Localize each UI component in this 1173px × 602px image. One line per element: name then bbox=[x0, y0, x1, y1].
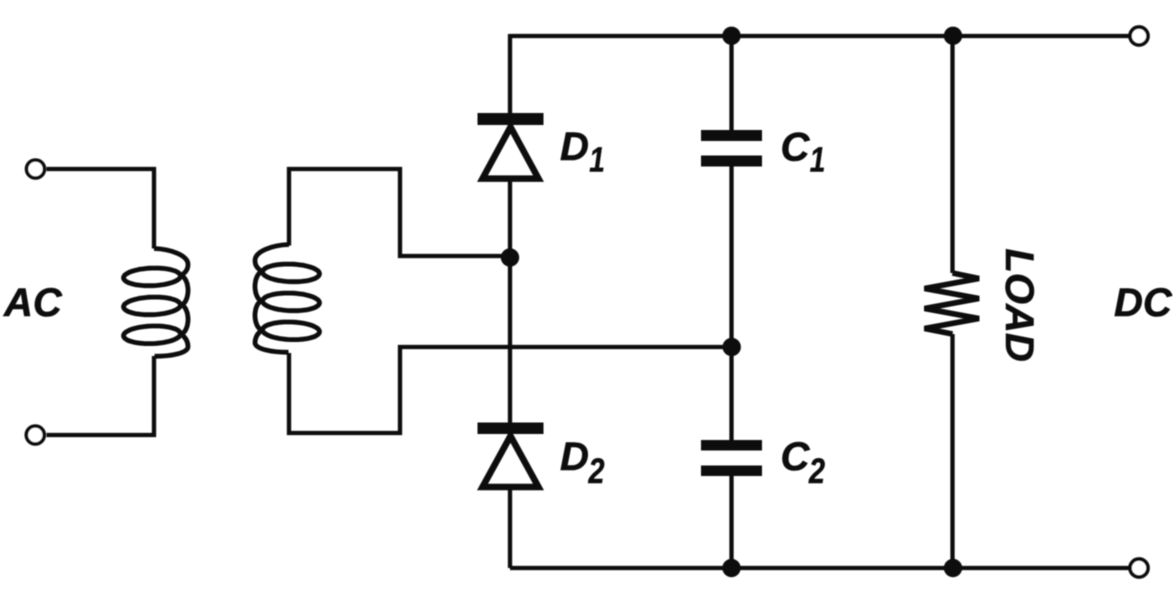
capacitor C2 top plate bbox=[701, 440, 762, 451]
transformer primary winding L1 bbox=[124, 249, 189, 357]
junction top rail / C1 bbox=[722, 27, 740, 45]
svg-text:C: C bbox=[781, 435, 811, 479]
wire node A to D2 cathode (crosses mid rail) bbox=[508, 257, 512, 424]
transformer secondary winding L2 bbox=[255, 245, 320, 353]
svg-text:1: 1 bbox=[587, 140, 608, 180]
svg-text:LOAD: LOAD bbox=[997, 249, 1041, 362]
svg-text:DC: DC bbox=[1114, 281, 1173, 325]
wire AC bottom terminal to primary bbox=[47, 356, 155, 435]
wire node B to C2 bbox=[729, 347, 733, 442]
capacitor C1 top plate bbox=[701, 130, 762, 141]
svg-text:D: D bbox=[560, 125, 589, 169]
svg-text:AC: AC bbox=[3, 281, 63, 325]
wire top rail to load bbox=[950, 34, 954, 273]
resistor LOAD zigzag bbox=[925, 273, 980, 334]
wire D2 anode to bottom rail bbox=[508, 488, 512, 568]
capacitor C1 bottom plate bbox=[701, 156, 762, 167]
junction top rail / load bbox=[944, 27, 962, 45]
diode D1 anode triangle bbox=[483, 127, 539, 179]
svg-text:2: 2 bbox=[808, 451, 825, 490]
AC input terminal top bbox=[27, 160, 45, 178]
junction bottom rail / load bbox=[944, 559, 962, 577]
junction node A (center tap) bbox=[501, 248, 519, 266]
svg-text:1: 1 bbox=[807, 140, 828, 180]
wire AC top terminal to primary bbox=[47, 169, 155, 249]
wire top rail to C1 bbox=[729, 34, 733, 131]
diode D1 cathode bar bbox=[478, 113, 544, 125]
wire secondary top lead bbox=[289, 169, 510, 256]
wire top rail to D1 cathode bbox=[508, 34, 512, 114]
wire secondary bottom lead to mid rail bbox=[289, 347, 732, 433]
wire bottom rail bbox=[510, 566, 1129, 570]
capacitor C2 bottom plate bbox=[701, 466, 762, 477]
junction node B mid rail / capacitors bbox=[723, 338, 741, 356]
svg-text:C: C bbox=[781, 126, 811, 170]
diode D2 anode triangle bbox=[483, 436, 539, 487]
DC output terminal bottom bbox=[1130, 559, 1148, 577]
wire D1 anode to node A bbox=[508, 179, 512, 257]
wire C2 to bottom rail bbox=[729, 475, 733, 568]
svg-text:D: D bbox=[560, 435, 589, 479]
AC input terminal bottom bbox=[26, 426, 44, 444]
DC output terminal top bbox=[1130, 27, 1148, 45]
diode D2 cathode bar bbox=[478, 423, 544, 435]
wire C1 to node B bbox=[729, 166, 733, 347]
wire top rail bbox=[510, 34, 1129, 38]
wire load to bottom rail bbox=[950, 334, 954, 568]
svg-text:2: 2 bbox=[588, 451, 605, 490]
junction bottom rail / C2 bbox=[722, 559, 740, 577]
